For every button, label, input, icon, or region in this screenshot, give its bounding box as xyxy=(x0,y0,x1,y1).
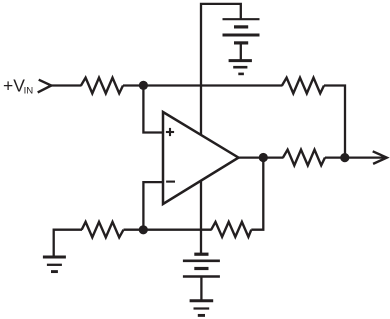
node D junction dot xyxy=(340,153,349,162)
wire battery B1 to ground xyxy=(240,43,242,61)
svg-text:IN: IN xyxy=(24,85,34,96)
node A junction dot xyxy=(139,81,148,90)
resistor R4 xyxy=(211,222,251,237)
wire node A to op-amp + input xyxy=(143,85,163,132)
resistor R5 xyxy=(82,222,124,238)
wire battery B2 to ground xyxy=(200,277,202,301)
wire node B to R5 xyxy=(124,229,144,231)
node C junction dot xyxy=(259,153,268,162)
node B junction dot xyxy=(139,225,148,234)
resistor R3 xyxy=(283,150,325,166)
wire R5 to ground corner xyxy=(54,230,82,257)
resistor R1 xyxy=(81,78,123,94)
input terminal chevron xyxy=(38,80,52,93)
resistor R2 xyxy=(282,78,324,94)
ground bottom-left xyxy=(43,257,66,272)
output arrowhead xyxy=(373,151,387,164)
svg-text:+V: +V xyxy=(3,75,25,95)
wire node C down to bottom rail xyxy=(251,158,263,230)
wire R4 to node B xyxy=(143,229,211,231)
wire R1 to node A xyxy=(123,84,143,86)
wire op-amp - input to node B xyxy=(143,182,163,230)
ground bottom-center (battery B2 return) xyxy=(190,301,214,316)
wire V+ rail from op-amp top edge up and over to battery B1 xyxy=(201,4,241,135)
wire node A to R2 xyxy=(143,84,282,86)
ground top (battery B1 return) xyxy=(229,61,252,74)
wire R2 to corner down to node D xyxy=(324,86,345,158)
battery B1 xyxy=(223,19,260,43)
node +VIN label xyxy=(3,75,33,96)
op-amp U1 xyxy=(163,112,239,204)
wire input to R1 xyxy=(51,84,82,86)
wire op-amp output to R3 xyxy=(239,156,284,158)
wire V- rail from op-amp bottom edge down to battery B2 xyxy=(200,181,202,255)
battery B2 xyxy=(183,254,220,276)
wire R3 to output arrow xyxy=(325,156,386,158)
